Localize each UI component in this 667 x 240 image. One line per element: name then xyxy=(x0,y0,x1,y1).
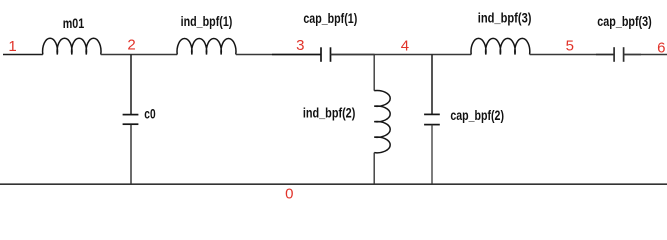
wire cap_bpf(2) to ground rail xyxy=(431,125,433,184)
wire ind_bpf(2) to ground rail xyxy=(373,153,375,184)
wire c0 to ground rail xyxy=(130,124,132,184)
ground rail node 0 xyxy=(0,183,667,185)
wire node4 to cap_bpf(2) xyxy=(431,55,433,115)
wire net5 xyxy=(530,54,614,56)
svg-text:ind_bpf(3): ind_bpf(3) xyxy=(478,10,532,26)
wire net6 xyxy=(624,54,667,56)
svg-text:c0: c0 xyxy=(144,107,155,122)
svg-text:3: 3 xyxy=(296,37,304,54)
svg-text:1: 1 xyxy=(8,38,16,55)
svg-text:4: 4 xyxy=(401,37,409,54)
wire node4 to ind_bpf(2) xyxy=(373,55,375,91)
svg-text:cap_bpf(3): cap_bpf(3) xyxy=(597,13,651,29)
svg-text:cap_bpf(1): cap_bpf(1) xyxy=(303,10,357,26)
wire net3 xyxy=(236,54,321,56)
svg-text:cap_bpf(2): cap_bpf(2) xyxy=(450,107,504,123)
svg-text:ind_bpf(2): ind_bpf(2) xyxy=(303,105,356,121)
svg-text:0: 0 xyxy=(285,186,293,203)
svg-text:6: 6 xyxy=(657,40,665,57)
capacitor cap_bpf(3) xyxy=(596,47,641,62)
capacitor cap_bpf(1) xyxy=(272,47,375,62)
svg-text:5: 5 xyxy=(566,37,574,54)
svg-text:2: 2 xyxy=(127,37,135,54)
svg-text:m01: m01 xyxy=(63,16,85,31)
inductor ind_bpf(2) xyxy=(374,91,390,153)
wire net4 xyxy=(331,54,472,56)
capacitor c0 xyxy=(123,115,139,125)
svg-text:ind_bpf(1): ind_bpf(1) xyxy=(181,13,233,29)
inductor ind_bpf(1) xyxy=(177,38,236,54)
wire net2 xyxy=(101,54,178,56)
wire node2 to c0 xyxy=(130,55,132,115)
inductor m01 xyxy=(43,38,101,54)
inductor ind_bpf(3) xyxy=(471,38,530,54)
capacitor cap_bpf(2) xyxy=(424,114,440,124)
wire net1 left xyxy=(3,54,43,56)
